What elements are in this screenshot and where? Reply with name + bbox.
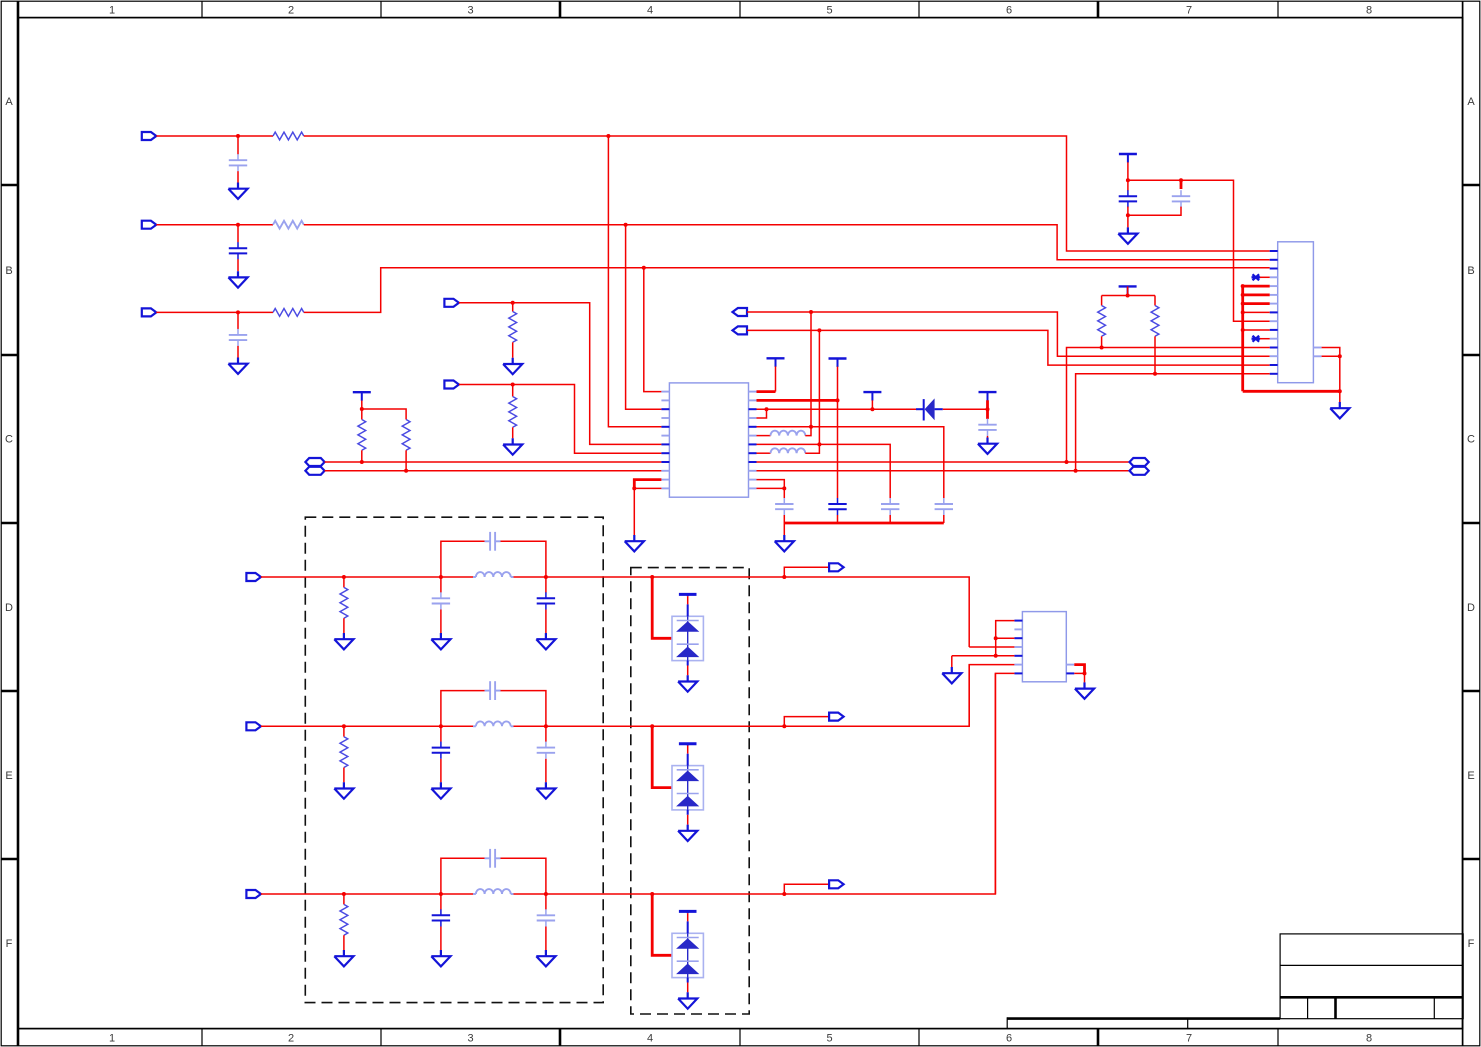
ground GND14c: [536, 782, 555, 798]
power flag VT5: [979, 392, 997, 401]
wire channel 2 main: [261, 725, 473, 727]
resistor R11 termination: [340, 737, 348, 768]
resistor R1: [273, 132, 304, 140]
wire ch1 bypass branch: [441, 541, 485, 577]
port P10 channel 3: [246, 890, 261, 898]
svg-text:E: E: [1467, 770, 1474, 782]
wire U1 pin R1 to VT2: [757, 390, 776, 393]
junction gnd pin7: [1241, 302, 1245, 306]
wire C10 top stem: [1180, 180, 1183, 189]
wire R2 node to capacitor C5: [837, 400, 839, 498]
wire cap left to ground: [440, 927, 442, 951]
power flag VT2: [767, 358, 785, 367]
port P6: [733, 308, 748, 316]
junction ch2 cap left tap: [439, 724, 443, 728]
port P13 channel 3 out: [829, 880, 844, 888]
wire U1 pin R6 to inductor L1: [757, 435, 771, 437]
ground GND9: [1118, 227, 1137, 243]
junction gnd pin6: [1241, 293, 1245, 297]
wire net N3 row3: [156, 311, 273, 313]
wire U1 pin R4 join R3: [757, 409, 767, 418]
capacitor C12 shunt left: [432, 592, 450, 609]
junction ch2 cap right tap: [544, 724, 548, 728]
ground GND13a: [334, 633, 353, 649]
junction row1 cap tap: [236, 134, 240, 138]
wire SW2 riser to port net: [818, 330, 820, 444]
TVS D4 dual diode: [672, 933, 703, 977]
wire ch2 cap right stem: [545, 726, 547, 742]
svg-text:F: F: [6, 938, 13, 950]
svg-text:2: 2: [288, 1033, 294, 1045]
svg-text:D: D: [5, 602, 13, 614]
wire P5 to U1 pin L8: [459, 385, 662, 454]
junction pin5 elbow: [1241, 284, 1245, 288]
no-connect X pin4: [1252, 274, 1261, 280]
junction U3 pin3: [994, 636, 998, 640]
power flag VT6: [1119, 154, 1137, 163]
junction U3 pin5: [994, 654, 998, 658]
wire P4 to U1 pin L7: [459, 303, 662, 445]
svg-text:6: 6: [1006, 4, 1012, 16]
capacitor C6: [881, 498, 899, 515]
wire cap left to ground: [440, 610, 442, 634]
wire J1 pin5 ground elbow thick: [1243, 286, 1270, 391]
junction R3/R4: [765, 407, 769, 411]
svg-text:B: B: [5, 265, 12, 277]
wire VT5 stem: [986, 400, 989, 409]
capacitor C5: [828, 498, 846, 515]
resistor R6: [358, 420, 366, 451]
IC U3: [1022, 612, 1066, 682]
wire ch1 cap left stem: [440, 577, 442, 593]
ground GND2: [228, 271, 247, 287]
ground GND11: [942, 667, 961, 683]
junction ch1 TVS tap: [650, 575, 654, 579]
wire gnd to pin10: [1243, 329, 1270, 331]
svg-text:D: D: [1467, 602, 1475, 614]
junction VT1 node: [360, 407, 364, 411]
capacitor C16 shunt left: [432, 909, 450, 926]
wire R10 to ground: [343, 618, 345, 633]
svg-text:3: 3: [467, 4, 473, 16]
svg-text:2: 2: [288, 4, 294, 16]
hex port H2: [305, 467, 324, 475]
junction ch2 port stub: [782, 724, 786, 728]
junction SW1 node: [809, 425, 813, 429]
svg-text:3: 3: [467, 1033, 473, 1045]
ground GND7: [775, 535, 794, 551]
wire U3 pin9 gnd: [1074, 672, 1084, 674]
wire ch2 TVS drop thick: [652, 726, 672, 787]
ground GND3: [228, 358, 247, 374]
wire VT7 node: [1102, 295, 1155, 297]
wire C1 to ground: [237, 171, 239, 182]
wire ch1 port stub: [784, 567, 830, 577]
capacitor C14 shunt right: [537, 592, 555, 609]
junction P6 on SW1 riser: [809, 310, 813, 314]
wire R4 top stem: [512, 303, 514, 312]
wire TVS bottom stem: [687, 978, 689, 983]
capacitor C8: [978, 419, 996, 436]
ground GND8: [978, 438, 997, 454]
wire D1 anode to node: [943, 408, 988, 410]
wire gnd drop: [1339, 391, 1341, 402]
wire U1 pin R2 thick: [757, 399, 838, 402]
junction SW2 node: [817, 442, 821, 446]
wire C3 to ground: [237, 346, 239, 358]
capacitor C18 shunt right: [537, 909, 555, 926]
wire P6 to connector pin13: [747, 312, 1270, 356]
junction gnd pin10: [1241, 328, 1245, 332]
wire TVS top stem: [687, 911, 689, 913]
wire bus A to U1 pin L9: [325, 461, 662, 463]
junction bus A right: [1065, 460, 1069, 464]
wire U3 gnd drop: [1084, 673, 1086, 682]
connector J1: [1278, 242, 1314, 383]
wire C5 to ground rail: [837, 515, 839, 523]
capacitor C3: [229, 329, 247, 346]
wire gnd to pin6 thick: [1243, 293, 1270, 296]
junction ch3 resistor tap: [342, 892, 346, 896]
wire U1 pin R5 SW1 net: [757, 427, 944, 498]
power bar TVS 3: [679, 910, 697, 913]
wire ch3 cap left stem: [440, 894, 442, 910]
junction ch1 cap right tap: [544, 575, 548, 579]
junction right pin2: [1338, 354, 1342, 358]
wire node to capacitor C8: [986, 409, 989, 419]
junction ch1 port stub: [782, 575, 786, 579]
port P1: [142, 132, 157, 140]
inductor L5 series: [476, 889, 511, 894]
wire ch1 termination stem: [343, 577, 345, 587]
IC U1: [669, 383, 748, 497]
wire R8 to pin12 net: [1101, 336, 1103, 347]
junction C9/C10 ground node: [1126, 213, 1130, 217]
dashed box filter bank: [305, 517, 603, 1002]
wire ch2 bypass branch: [441, 691, 485, 727]
ground GND TVS 3: [678, 992, 697, 1008]
wire TVS top stem: [687, 594, 689, 596]
resistor R9: [1151, 306, 1159, 337]
junction row2 to U1 pin3: [624, 223, 628, 227]
junction ch2 resistor tap: [342, 724, 346, 728]
wire U1 pin R7 SW2 net: [757, 444, 891, 498]
svg-text:C: C: [5, 434, 13, 446]
port P2: [142, 221, 157, 229]
ground GND4: [503, 358, 522, 374]
wire ch2 port stub: [784, 717, 830, 727]
junction ch1 resistor tap: [342, 575, 346, 579]
junction row1 to U1 pin5: [606, 134, 610, 138]
wire ground rail: [784, 522, 944, 525]
wire net N1 row1: [156, 135, 273, 137]
port P9 channel 2: [246, 722, 261, 730]
wire U1 pin R3 diode net: [757, 408, 917, 410]
power bar TVS 2: [679, 742, 697, 745]
junction R9 on pin15 net: [1153, 372, 1157, 376]
wire R4 to ground: [512, 342, 514, 358]
svg-text:4: 4: [647, 4, 653, 16]
wire rail to ground GND7: [783, 523, 785, 535]
resistor R10 termination: [340, 587, 348, 618]
ground GND13c: [536, 633, 555, 649]
wire P7 to connector pin14: [747, 330, 1270, 365]
wire gnd stem left: [951, 656, 953, 667]
wire row2 drop to U1 pin L3: [626, 225, 662, 410]
port P3: [142, 308, 157, 316]
junction row3 cap tap: [236, 310, 240, 314]
svg-text:F: F: [1468, 938, 1475, 950]
junction gnd bottom: [1338, 389, 1342, 393]
ground GND5: [503, 438, 522, 454]
wire U1 pin R9 bus to hex H3: [757, 461, 1130, 463]
junction diode output node: [986, 407, 990, 411]
junction bus B right: [1074, 469, 1078, 473]
resistor R5 to ground: [509, 397, 517, 428]
ground GND1: [228, 183, 247, 199]
wire ch3 TVS drop thick: [652, 894, 672, 955]
wire C2 to ground: [237, 259, 239, 271]
svg-text:A: A: [1467, 96, 1475, 108]
wire VT1 to resistor pair: [362, 401, 406, 420]
junction ch3 TVS tap: [650, 892, 654, 896]
junction ch2 TVS tap: [650, 724, 654, 728]
wire cap right to ground: [545, 927, 547, 951]
ground GND TVS 2: [678, 825, 697, 841]
wire R11 to ground: [343, 768, 345, 783]
TVS D3 dual diode: [672, 766, 703, 810]
capacitor C16 shunt right: [537, 742, 555, 759]
junction P5 resistor tap: [511, 383, 515, 387]
inductor L4 series: [476, 721, 511, 726]
wire node to capacitor C4: [783, 488, 785, 498]
wire cap C2 stem: [237, 225, 239, 243]
resistor R8: [1098, 306, 1106, 337]
svg-text:7: 7: [1186, 4, 1192, 16]
wire net N2 to connector pin2: [304, 225, 1270, 260]
wire U1 pin L12 to ground node: [634, 487, 661, 489]
wire bus B riser to pin15: [1076, 374, 1270, 471]
junction VT6 node: [1126, 178, 1130, 182]
resistor R7: [402, 420, 410, 451]
svg-text:8: 8: [1366, 1033, 1372, 1045]
wire power net to connector pin9: [1128, 180, 1270, 321]
junction L11/L12 ground node: [632, 486, 636, 490]
power flag VT7: [1119, 286, 1137, 295]
svg-text:5: 5: [826, 4, 832, 16]
wire C10 bottom to ground node: [1128, 207, 1181, 216]
ground GND TVS 1: [678, 675, 697, 691]
wire TVS bottom stem: [687, 661, 689, 666]
ground GND14b: [431, 782, 450, 798]
wire L2 to SW2 vertical: [805, 444, 819, 453]
wire ch3 cap right stem: [545, 894, 547, 910]
wire C8 to ground: [987, 436, 989, 438]
ground GND15a: [334, 950, 353, 966]
junction row3 to U1 pin1: [642, 266, 646, 270]
svg-text:A: A: [5, 96, 13, 108]
ground GND6: [625, 535, 644, 551]
wire TVS top stem: [687, 744, 689, 746]
wire ground node drop: [633, 488, 635, 535]
junction R7 on bus B: [404, 469, 408, 473]
svg-text:1: 1: [109, 1033, 115, 1045]
junction U3 right gnd: [1083, 671, 1087, 675]
wire R5 to ground: [512, 427, 514, 438]
wire row3 drop to U1 pin L1: [644, 268, 662, 392]
capacitor C1: [229, 154, 247, 171]
series capacitor C13 bypass: [490, 532, 495, 551]
wire R9 to pin15 net: [1154, 336, 1156, 374]
hex port H1: [305, 458, 324, 466]
wire R7 to bus B: [405, 450, 407, 471]
junction R8 on pin12 net: [1100, 346, 1104, 350]
series capacitor C15 bypass: [490, 681, 495, 700]
wire J1 right pins to gnd: [1322, 348, 1340, 392]
wire net N1 to connector pin1: [304, 136, 1270, 251]
wire ch1 cap right stem: [545, 577, 547, 593]
wire bypass right: [501, 858, 546, 894]
svg-text:5: 5: [826, 1033, 832, 1045]
wire C6 to ground rail: [889, 515, 891, 523]
wire net N3 step up to connector pin3: [304, 268, 1270, 313]
junction R6 on bus A: [360, 460, 364, 464]
wire R6 top stem: [361, 409, 363, 420]
ground GND13b: [431, 633, 450, 649]
wire U3 pin1 gnd: [996, 621, 1015, 656]
wire TVS bottom stem: [687, 810, 689, 815]
wire U3 pin5 gnd: [952, 655, 1015, 657]
no-connect X pin11: [1252, 336, 1261, 342]
junction row2 cap tap: [236, 223, 240, 227]
series capacitor C17 bypass: [490, 849, 495, 868]
wire U1 pin R12: [757, 487, 785, 489]
inductor L1: [771, 431, 806, 436]
wire cap right to ground: [545, 759, 547, 783]
wire net N2 row2: [156, 224, 273, 226]
wire bypass right: [501, 691, 546, 727]
power flag VT1: [353, 392, 371, 401]
wire ch1 TVS drop thick: [652, 577, 672, 638]
junction P4 resistor tap: [511, 301, 515, 305]
port P8 channel 1: [246, 573, 261, 581]
ground GND10: [1330, 402, 1349, 418]
wire SW1 riser to port net: [810, 312, 812, 427]
ground GND15b: [431, 950, 450, 966]
capacitor C9: [1119, 190, 1137, 207]
wire cap left to ground: [440, 759, 442, 783]
port P12 channel 2 out: [829, 713, 844, 721]
junction C10 tap: [1179, 178, 1183, 182]
junction R2 node: [836, 398, 840, 402]
junction ch1 cap left tap: [439, 575, 443, 579]
resistor R2: [273, 221, 304, 229]
wire R5 top stem: [512, 385, 514, 397]
ground GND14a: [334, 782, 353, 798]
wire channel 1 main: [261, 576, 473, 578]
wire R9 top stem: [1154, 296, 1156, 306]
wire channel 3 main: [261, 893, 473, 895]
power bar TVS 1: [679, 593, 697, 596]
junction ch3 port stub: [782, 892, 786, 896]
TVS D2 dual diode: [672, 616, 703, 660]
wire ch2 after inductor: [514, 725, 653, 727]
capacitor C7: [935, 498, 953, 515]
wire ch3 to output: [652, 673, 995, 894]
svg-text:7: 7: [1186, 1033, 1192, 1045]
resistor R4 to ground: [509, 312, 517, 343]
port P11 channel 1 out: [829, 563, 844, 571]
svg-text:E: E: [5, 770, 12, 782]
inductor L3 series: [476, 572, 511, 577]
port P4: [444, 299, 459, 307]
wire bus A riser to pin12: [1067, 348, 1270, 463]
wire L1 to SW1 vertical: [805, 427, 811, 436]
wire R12 to ground: [343, 935, 345, 950]
wire U1 pin R10 bus to hex H4: [757, 470, 1130, 472]
wire U3 pin3 gnd: [996, 637, 1015, 639]
wire ch2 termination stem: [343, 726, 345, 736]
svg-text:1: 1: [109, 4, 115, 16]
junction P7 on SW2 riser: [817, 328, 821, 332]
wire cap C1 stem: [237, 136, 239, 154]
wire gnd to pin8: [1243, 311, 1270, 313]
junction VT7: [1126, 294, 1130, 298]
svg-text:C: C: [1467, 434, 1475, 446]
wire ch3 bypass branch: [441, 858, 485, 894]
junction gnd pin8: [1241, 310, 1245, 314]
wire cap C3 stem: [237, 312, 239, 329]
wire gnd to pin7 thick: [1243, 302, 1270, 305]
power flag VT4: [863, 392, 881, 401]
dashed box TVS bank: [631, 568, 749, 1014]
wire U3 pin8 elbow thick: [1074, 665, 1084, 674]
wire U1 pin R8 to inductor L2: [757, 452, 771, 454]
wire U1 pin L11 thick to ground node: [634, 480, 661, 489]
junction ch3 cap left tap: [439, 892, 443, 896]
svg-text:B: B: [1467, 265, 1474, 277]
port P7: [733, 326, 748, 334]
wire VT6 to cap C9: [1127, 162, 1129, 190]
wire bus B to U1 pin L10: [325, 470, 662, 472]
wire gnd bottom run thick: [1243, 390, 1340, 393]
wire U1 pin R11 elbow: [757, 480, 785, 489]
wire ch1 after inductor: [514, 576, 653, 578]
svg-text:4: 4: [647, 1033, 653, 1045]
diode D1: [916, 398, 943, 420]
capacitor C10: [1172, 190, 1190, 207]
svg-text:6: 6: [1006, 1033, 1012, 1045]
junction ch3 cap right tap: [544, 892, 548, 896]
capacitor C4: [775, 498, 793, 515]
ground GND12: [1075, 682, 1094, 698]
wire ch2 to output: [652, 665, 969, 727]
wire C4 to ground rail: [783, 515, 785, 523]
wire row1 drop to U1 pin L5: [608, 136, 661, 427]
wire VT4 stem: [871, 400, 873, 409]
wire C7 to ground rail: [943, 515, 945, 523]
hex port H3: [1130, 458, 1149, 466]
wire ch1 to output: [652, 577, 969, 647]
wire U3 pin6 to ch2: [969, 665, 1014, 727]
wire ch3 port stub: [784, 884, 830, 894]
wire R8 top stem: [1101, 296, 1103, 306]
wire cap right to ground: [545, 610, 547, 634]
inductor L2: [771, 448, 806, 453]
capacitor C14 shunt left: [432, 742, 450, 759]
resistor R12 termination: [340, 904, 348, 935]
power flag VT3: [829, 359, 847, 368]
